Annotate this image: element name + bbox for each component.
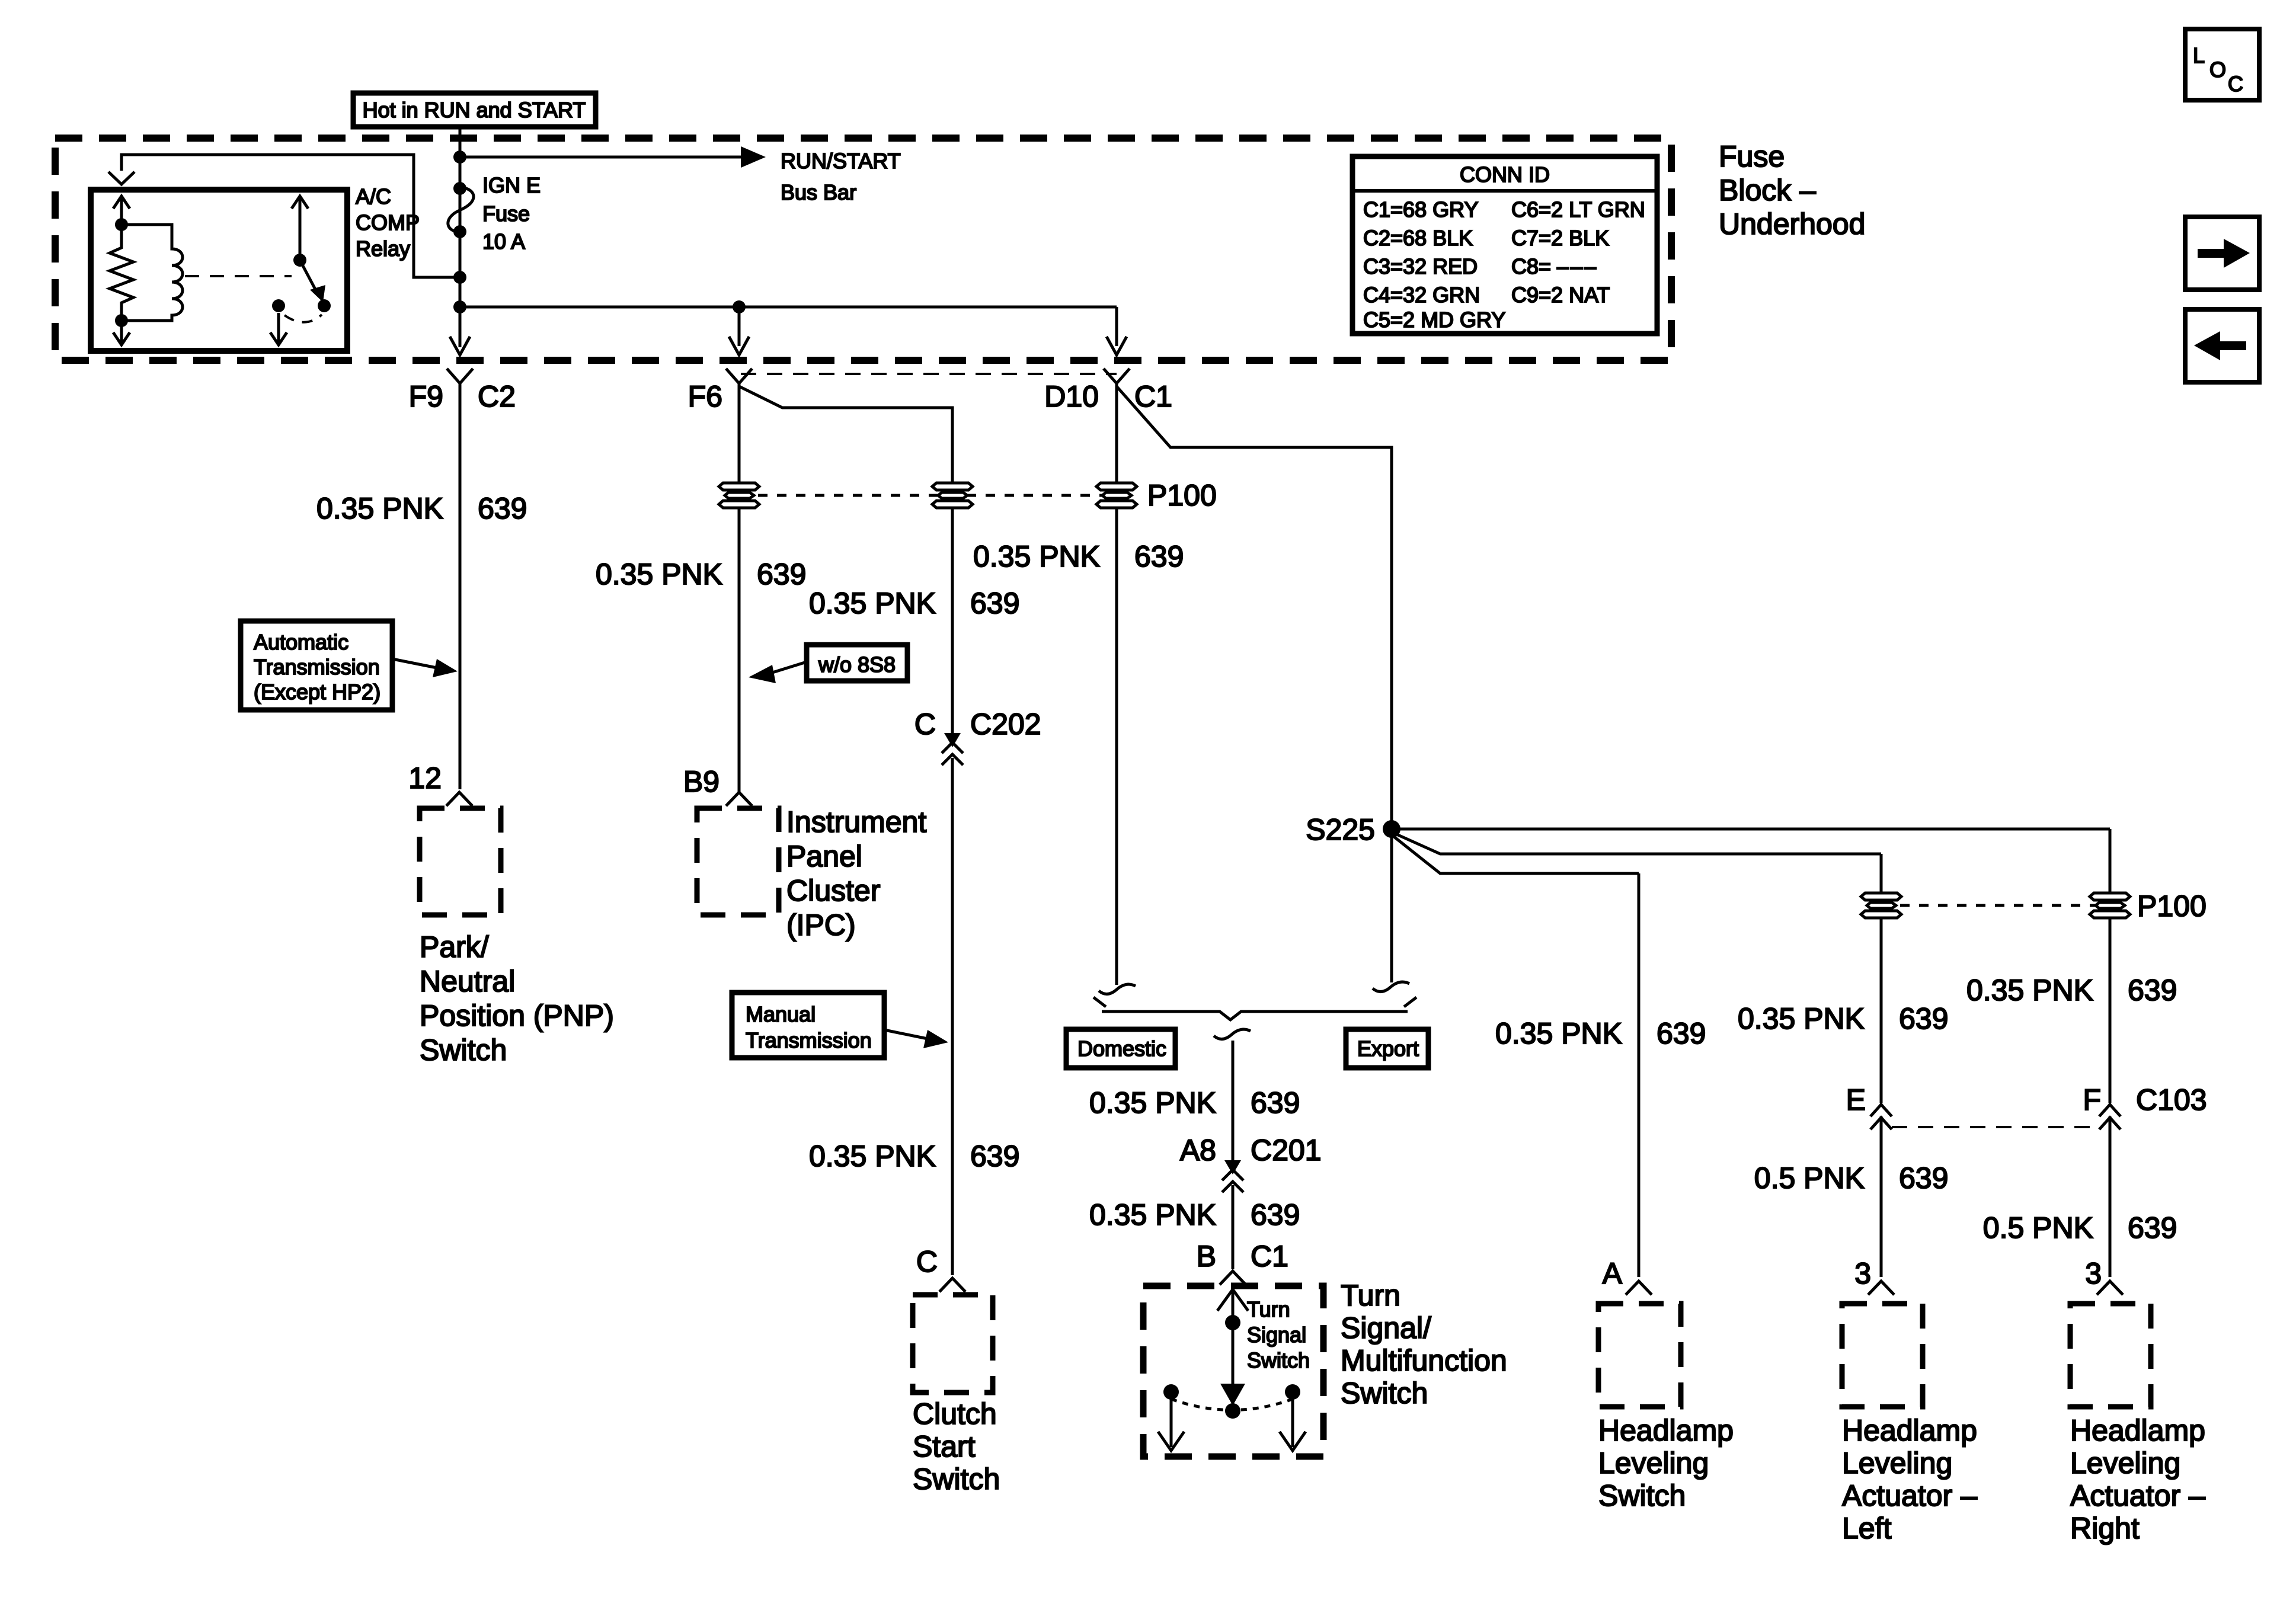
svg-text:(IPC): (IPC) [786, 908, 856, 942]
svg-text:639: 639 [1134, 540, 1184, 573]
svg-text:IGN E: IGN E [482, 173, 541, 197]
svg-text:Bus Bar: Bus Bar [781, 180, 856, 204]
svg-text:CONN ID: CONN ID [1460, 162, 1550, 187]
svg-text:(Except HP2): (Except HP2) [254, 680, 380, 704]
svg-text:Leveling: Leveling [2070, 1446, 2180, 1480]
svg-text:0.35 PNK: 0.35 PNK [809, 1140, 936, 1173]
svg-text:Panel: Panel [786, 840, 862, 873]
svg-text:Transmission: Transmission [746, 1028, 872, 1052]
svg-text:3: 3 [1854, 1257, 1871, 1290]
svg-text:C202: C202 [970, 708, 1041, 741]
svg-text:C9=2 NAT: C9=2 NAT [1511, 283, 1610, 307]
svg-text:639: 639 [1899, 1161, 1948, 1195]
svg-text:Leveling: Leveling [1598, 1446, 1709, 1480]
svg-text:Switch: Switch [1598, 1479, 1686, 1512]
svg-text:639: 639 [1251, 1086, 1300, 1119]
svg-text:Instrument: Instrument [786, 805, 926, 838]
svg-text:C2: C2 [478, 380, 516, 413]
svg-text:COMP: COMP [356, 210, 420, 235]
svg-text:Clutch: Clutch [913, 1397, 997, 1430]
svg-text:0.35 PNK: 0.35 PNK [596, 558, 722, 591]
svg-text:Domestic: Domestic [1077, 1036, 1166, 1061]
svg-text:B9: B9 [683, 765, 720, 798]
svg-text:Turn: Turn [1247, 1297, 1290, 1321]
svg-text:S225: S225 [1306, 813, 1375, 846]
svg-text:10 A: 10 A [482, 229, 525, 254]
svg-text:Headlamp: Headlamp [1842, 1414, 1977, 1447]
svg-text:Actuator –: Actuator – [1842, 1479, 1977, 1512]
svg-text:w/o 8S8: w/o 8S8 [818, 652, 896, 677]
svg-text:639: 639 [2128, 1211, 2177, 1244]
svg-text:639: 639 [478, 492, 527, 525]
svg-text:Start: Start [913, 1430, 976, 1463]
svg-text:639: 639 [757, 558, 806, 591]
svg-text:Switch: Switch [1247, 1348, 1310, 1372]
svg-text:639: 639 [2128, 974, 2177, 1007]
svg-text:0.35 PNK: 0.35 PNK [809, 587, 936, 620]
svg-text:639: 639 [1657, 1017, 1706, 1050]
svg-text:C1: C1 [1134, 380, 1172, 413]
svg-text:12: 12 [408, 761, 442, 795]
svg-text:F6: F6 [688, 380, 722, 413]
svg-text:Left: Left [1842, 1512, 1892, 1545]
svg-text:P100: P100 [1147, 479, 1217, 512]
svg-text:Multifunction: Multifunction [1341, 1344, 1507, 1377]
svg-text:C6=2 LT GRN: C6=2 LT GRN [1511, 197, 1645, 222]
svg-text:Switch: Switch [1341, 1377, 1428, 1410]
svg-text:C201: C201 [1251, 1134, 1322, 1167]
svg-text:0.5 PNK: 0.5 PNK [1983, 1211, 2093, 1244]
svg-text:C1=68 GRY: C1=68 GRY [1363, 197, 1478, 222]
svg-text:C4=32 GRN: C4=32 GRN [1363, 283, 1480, 307]
svg-text:C1: C1 [1251, 1240, 1288, 1273]
svg-text:Export: Export [1357, 1036, 1419, 1061]
svg-text:639: 639 [1899, 1002, 1948, 1035]
svg-text:C5=2 MD GRY: C5=2 MD GRY [1363, 308, 1505, 332]
svg-text:Signal/: Signal/ [1341, 1311, 1431, 1345]
svg-text:C103: C103 [2136, 1083, 2207, 1116]
svg-text:Relay: Relay [356, 236, 410, 261]
svg-text:0.35 PNK: 0.35 PNK [1089, 1198, 1216, 1231]
svg-text:C: C [916, 1245, 938, 1278]
svg-text:Right: Right [2070, 1512, 2140, 1545]
svg-text:Transmission: Transmission [254, 655, 380, 679]
svg-text:Hot in RUN and START: Hot in RUN and START [363, 98, 586, 122]
svg-text:639: 639 [970, 587, 1019, 620]
svg-text:A8: A8 [1180, 1134, 1216, 1167]
svg-text:A: A [1603, 1257, 1623, 1290]
svg-text:A/C: A/C [356, 184, 391, 209]
svg-text:Park/: Park/ [420, 930, 489, 964]
svg-text:Fuse: Fuse [1719, 140, 1785, 173]
svg-text:O: O [2209, 57, 2226, 82]
svg-text:Underhood: Underhood [1719, 207, 1865, 241]
svg-text:Block –: Block – [1719, 174, 1816, 207]
svg-text:Headlamp: Headlamp [2070, 1414, 2205, 1447]
svg-text:C8= – – –: C8= – – – [1511, 254, 1596, 279]
svg-text:Neutral: Neutral [420, 965, 515, 998]
svg-text:Cluster: Cluster [786, 874, 880, 907]
svg-text:Fuse: Fuse [482, 201, 530, 226]
svg-text:Signal: Signal [1247, 1323, 1306, 1347]
svg-text:Actuator –: Actuator – [2070, 1479, 2205, 1512]
svg-text:Turn: Turn [1341, 1279, 1400, 1312]
svg-text:0.5 PNK: 0.5 PNK [1754, 1161, 1865, 1195]
svg-text:639: 639 [1251, 1198, 1300, 1231]
svg-text:0.35 PNK: 0.35 PNK [1089, 1086, 1216, 1119]
svg-text:Headlamp: Headlamp [1598, 1414, 1734, 1447]
svg-text:Position (PNP): Position (PNP) [420, 999, 614, 1032]
svg-text:C: C [2228, 72, 2243, 96]
svg-text:639: 639 [970, 1140, 1019, 1173]
svg-text:0.35 PNK: 0.35 PNK [1495, 1017, 1622, 1050]
svg-text:L: L [2193, 43, 2205, 68]
svg-text:F9: F9 [409, 380, 443, 413]
svg-text:P100: P100 [2137, 889, 2207, 923]
svg-text:Switch: Switch [913, 1462, 1000, 1496]
svg-text:D10: D10 [1044, 380, 1099, 413]
svg-text:Manual: Manual [746, 1002, 816, 1026]
svg-text:C2=68 BLK: C2=68 BLK [1363, 226, 1473, 250]
svg-text:C: C [914, 708, 936, 741]
svg-text:0.35 PNK: 0.35 PNK [1738, 1002, 1865, 1035]
svg-text:Switch: Switch [420, 1033, 507, 1067]
svg-text:0.35 PNK: 0.35 PNK [316, 492, 443, 525]
svg-text:RUN/START: RUN/START [781, 149, 901, 173]
svg-text:F: F [2083, 1083, 2101, 1116]
svg-text:B: B [1197, 1240, 1216, 1273]
svg-text:0.35 PNK: 0.35 PNK [1966, 974, 2093, 1007]
svg-text:Leveling: Leveling [1842, 1446, 1952, 1480]
svg-text:E: E [1846, 1083, 1866, 1116]
svg-text:0.35 PNK: 0.35 PNK [973, 540, 1100, 573]
svg-text:C7=2 BLK: C7=2 BLK [1511, 226, 1609, 250]
svg-text:C3=32 RED: C3=32 RED [1363, 254, 1478, 279]
svg-text:3: 3 [2085, 1257, 2102, 1290]
svg-text:Automatic: Automatic [254, 630, 348, 654]
